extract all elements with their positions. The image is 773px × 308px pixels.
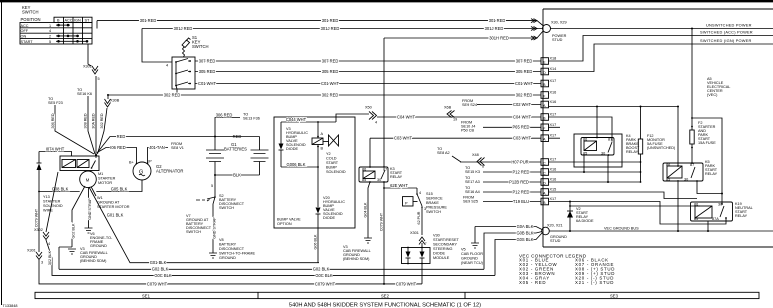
- svg-text:B+: B+: [129, 161, 135, 165]
- svg-text:87: 87: [608, 138, 612, 142]
- connector X302: [92, 66, 98, 74]
- svg-text:4: 4: [48, 242, 50, 246]
- svg-text:SE15 K3: SE15 K3: [465, 170, 480, 174]
- svg-text:ST: ST: [85, 19, 91, 23]
- svg-text:305 RED: 305 RED: [322, 69, 339, 74]
- wire C01 WHT rail: [195, 83, 541, 85]
- svg-text:C: C: [543, 162, 546, 166]
- wire G01 BLK diagonal: [89, 187, 319, 263]
- svg-text:X302: X302: [83, 65, 92, 69]
- svg-text:87: 87: [383, 168, 387, 172]
- svg-text:(VEC): (VEC): [707, 93, 718, 97]
- svg-text:X301: X301: [410, 231, 419, 235]
- svg-text:305 RED: 305 RED: [516, 69, 533, 74]
- svg-text:BATTERY: BATTERY: [219, 243, 237, 247]
- svg-text:G0A BLK: G0A BLK: [517, 224, 534, 229]
- G1 batteries top rail: [215, 136, 260, 138]
- svg-text:G01 BLK: G01 BLK: [107, 213, 124, 218]
- wire G08 BLK: [39, 191, 80, 193]
- svg-text:D: D: [543, 71, 546, 75]
- wire G006 BLK: [281, 166, 318, 168]
- svg-text:BLK: BLK: [233, 172, 241, 177]
- Y2 valve symbol: [329, 135, 339, 146]
- svg-text:307 RED: 307 RED: [199, 58, 216, 63]
- svg-text:COLD: COLD: [326, 157, 337, 161]
- VEC pin B X17: [541, 79, 556, 87]
- svg-text:X302: X302: [34, 228, 43, 232]
- Y13 pull-in coil: [62, 160, 76, 168]
- wire to V3 cab firewall ground: [59, 186, 85, 269]
- svg-text:X16: X16: [550, 100, 557, 104]
- svg-text:STUD: STUD: [550, 239, 561, 243]
- svg-text:C079 WHT: C079 WHT: [35, 208, 39, 227]
- VEC pin F2 X17: [541, 123, 556, 131]
- svg-text:30: 30: [601, 152, 605, 156]
- svg-text:G0S BLK: G0S BLK: [516, 237, 533, 242]
- SECTION: leftside: [27, 44, 495, 286]
- svg-text:GROUND AT: GROUND AT: [97, 201, 120, 205]
- svg-text:X15: X15: [550, 188, 557, 192]
- svg-text:6A DIODE: 6A DIODE: [576, 219, 594, 223]
- internal wire row C: [549, 161, 641, 163]
- svg-text:G0C BLK: G0C BLK: [154, 273, 172, 278]
- svg-text:Y13: Y13: [43, 195, 50, 199]
- S1 key switch feed from 301J: [142, 29, 172, 63]
- svg-text:I074 WHT: I074 WHT: [46, 146, 65, 151]
- svg-text:4: 4: [375, 121, 377, 125]
- wire P12G RED: [483, 191, 541, 193]
- connector X50 on C04 WHT: [369, 112, 377, 120]
- svg-text:306 RED: 306 RED: [216, 112, 233, 117]
- connector X301B: [419, 237, 425, 245]
- svg-text:G02 BLK: G02 BLK: [152, 267, 169, 272]
- svg-text:C02 WHT: C02 WHT: [513, 102, 531, 107]
- G2 alternator: [133, 162, 151, 180]
- F2 starter fuse: [691, 28, 693, 30]
- svg-text:302 RED: 302 RED: [516, 92, 533, 97]
- wire 301H RED rail: [384, 37, 537, 39]
- svg-text:DISCONNECT: DISCONNECT: [219, 247, 245, 251]
- wire 306 RED stub: [215, 118, 240, 137]
- svg-text:WIRE: WIRE: [43, 209, 53, 213]
- W1 ground at starter motor: [91, 187, 96, 197]
- connector X48 on H07 PUR: [477, 158, 485, 166]
- VEC outline: [543, 9, 773, 247]
- wire G05 BLK to alternator: [96, 180, 142, 192]
- svg-text:RELAY: RELAY: [705, 172, 718, 176]
- svg-text:7: 7: [425, 242, 427, 246]
- M1 starter motor: [80, 171, 97, 188]
- svg-text:I06 RED: I06 RED: [110, 145, 126, 150]
- F12 monitor fuse riser: [640, 107, 642, 183]
- svg-text:P50 CB: P50 CB: [461, 129, 475, 133]
- svg-text:OFF: OFF: [21, 29, 29, 33]
- svg-text:X16: X16: [550, 91, 557, 95]
- svg-text:SWITCHED (ACC) POWER: SWITCHED (ACC) POWER: [700, 30, 753, 35]
- SECTION: vec: [541, 9, 773, 247]
- svg-text:301H RED: 301H RED: [489, 35, 509, 40]
- svg-text:301J RED: 301J RED: [321, 26, 340, 31]
- svg-text:X17: X17: [550, 197, 557, 201]
- unswitched power wire: [551, 28, 773, 30]
- svg-text:86: 86: [666, 163, 670, 167]
- svg-text:PRESSURE: PRESSURE: [426, 206, 447, 210]
- wire P12 RED: [483, 171, 541, 173]
- row contact lines: [56, 25, 88, 41]
- wire 302 RED drop to solenoid: [107, 94, 109, 96]
- V8 battery disconnect switch ground: [209, 253, 217, 258]
- svg-text:V5: V5: [461, 248, 466, 252]
- VEC pin D2 X16: [541, 178, 556, 186]
- svg-text:SE17 A3: SE17 A3: [465, 180, 480, 184]
- S1 contact B-IGN: [176, 70, 191, 74]
- wire 302 RED rail: [108, 94, 541, 96]
- section bar: [35, 292, 759, 298]
- svg-text:4: 4: [49, 29, 51, 33]
- svg-text:X16: X16: [550, 178, 557, 182]
- svg-text:X17: X17: [550, 113, 557, 117]
- svg-text:RELAY: RELAY: [626, 150, 639, 154]
- internal wire row C2: [549, 171, 641, 173]
- svg-text:C01 WHT: C01 WHT: [515, 81, 533, 86]
- VEC pin A2 X17: [541, 134, 556, 142]
- svg-text:GND STRAP: GND STRAP: [88, 198, 92, 220]
- Y13 contact: [92, 161, 96, 169]
- K5 coil bottom to K19 contact: [697, 181, 722, 194]
- wire key switch to starter: [88, 44, 96, 155]
- K3 start relay risers: [369, 138, 371, 167]
- svg-text:C03 WHT: C03 WHT: [394, 136, 412, 141]
- svg-text:P65 RED: P65 RED: [512, 125, 529, 130]
- svg-text:G006 BLK: G006 BLK: [287, 162, 306, 167]
- svg-text:301 RED: 301 RED: [489, 18, 506, 23]
- svg-text:30A RED: 30A RED: [92, 113, 96, 129]
- svg-text:X30B: X30B: [110, 99, 120, 103]
- svg-text:BATTERIES: BATTERIES: [224, 147, 247, 152]
- svg-text:M: M: [86, 177, 90, 182]
- wire G0S BLK to VEC stud: [495, 233, 542, 275]
- svg-text:SE9 S24: SE9 S24: [462, 103, 477, 107]
- svg-text:30: 30: [718, 203, 722, 207]
- S2 battery disconnect switch: [196, 197, 215, 201]
- K4 contact to row D2: [607, 155, 609, 182]
- svg-text:SE3: SE3: [610, 294, 619, 299]
- K5 through wire to ground bus: [677, 180, 679, 231]
- S1 key symbol: [182, 38, 191, 48]
- battery 1: [214, 137, 216, 151]
- SECTION: keytable: [20, 5, 92, 44]
- K19 neutral start relay: [691, 202, 733, 221]
- VEC pin F X16: [541, 91, 556, 99]
- svg-text:G01 BLK: G01 BLK: [150, 260, 167, 265]
- SECTION: bottom: [35, 254, 759, 308]
- K4 riser from bus: [596, 107, 598, 138]
- internal wire row A3: [549, 192, 698, 199]
- svg-text:X20, X21: X20, X21: [547, 224, 563, 228]
- wire 305 RED rail: [195, 71, 541, 73]
- svg-text:5: 5: [98, 77, 100, 81]
- svg-text:C079 WHT: C079 WHT: [396, 281, 417, 286]
- connector X301: [36, 252, 42, 260]
- svg-text:15A FUSE: 15A FUSE: [698, 141, 716, 145]
- V3 cab firewall ground symbol: [68, 249, 76, 254]
- svg-text:SECONDARY: SECONDARY: [433, 243, 457, 247]
- VEC ground bus: [549, 230, 773, 232]
- switched IGN power wire: [549, 44, 773, 72]
- svg-text:306 RED: 306 RED: [51, 113, 55, 128]
- S2 gnd strap: [212, 211, 214, 253]
- key switch position table: [20, 17, 92, 44]
- VEC pin D X14: [541, 67, 556, 75]
- wire C079 WHT riser: [39, 260, 422, 284]
- svg-text:D: D: [543, 182, 546, 186]
- VEC pin A X16: [541, 100, 556, 108]
- svg-text:3: 3: [41, 261, 43, 265]
- svg-text:SE5 F23: SE5 F23: [48, 101, 63, 105]
- svg-text:Y2: Y2: [326, 152, 331, 156]
- X20 X21 ground stud: [542, 227, 550, 235]
- svg-text:MODULE: MODULE: [433, 256, 450, 260]
- svg-text:301J RED: 301J RED: [174, 26, 193, 31]
- diode module ground leg: [421, 264, 423, 284]
- svg-text:G05 BLK: G05 BLK: [111, 186, 128, 191]
- V30 diode module: [402, 248, 431, 264]
- contact dots: [57, 24, 88, 43]
- svg-text:SE13 F36: SE13 F36: [243, 117, 260, 121]
- S1 internal feed: [176, 62, 177, 95]
- connector X10 on C04 WHT: [447, 111, 455, 118]
- svg-text:(BEHIND SDM): (BEHIND SDM): [343, 257, 370, 261]
- battery cable RED: [97, 137, 215, 154]
- svg-text:302 RED: 302 RED: [100, 113, 104, 128]
- svg-text:GROUND: GROUND: [461, 257, 478, 261]
- svg-text:DIODE: DIODE: [433, 252, 445, 256]
- svg-text:85: 85: [666, 178, 670, 182]
- svg-text:G06 BLK: G06 BLK: [314, 234, 318, 250]
- border frame top: [0, 0, 773, 2]
- svg-text:C079 WHT: C079 WHT: [315, 281, 336, 286]
- svg-text:START/RESET: START/RESET: [433, 238, 459, 242]
- VEC pin B3 X17: [541, 197, 556, 205]
- svg-text:2: 2: [49, 35, 51, 39]
- svg-text:RED: RED: [117, 134, 126, 139]
- svg-text:4: 4: [166, 64, 168, 68]
- svg-text:540H AND 548H SKIDDER SYSTEM F: 540H AND 548H SKIDDER SYSTEM FUNCTIONAL …: [289, 302, 481, 308]
- svg-text:86: 86: [362, 168, 366, 172]
- wire 306 RED to SE5 F23: [55, 105, 94, 154]
- svg-text:G0B BLK: G0B BLK: [516, 230, 533, 235]
- svg-text:BUMP: BUMP: [326, 166, 337, 170]
- svg-text:G0C BLK: G0C BLK: [315, 273, 333, 278]
- svg-text:SOLENOID: SOLENOID: [326, 170, 346, 174]
- wire P12B RED: [483, 181, 541, 183]
- svg-text:87A: 87A: [712, 217, 719, 221]
- svg-text:C04 WHT: C04 WHT: [397, 114, 415, 119]
- K4 park brake boost relay outer: [574, 134, 622, 167]
- svg-text:X30, X29: X30, X29: [551, 21, 567, 25]
- svg-text:ON: ON: [21, 35, 27, 39]
- svg-text:SWITCH: SWITCH: [186, 230, 201, 234]
- svg-text:62E WHT: 62E WHT: [390, 183, 408, 188]
- svg-text:307 RED: 307 RED: [322, 58, 339, 63]
- svg-text:T19 BLU: T19 BLU: [513, 199, 529, 204]
- V2 wire to K19 coil: [570, 205, 700, 207]
- V3B cab firewall ground: [364, 238, 372, 243]
- wire C04 WHT long: [336, 114, 541, 122]
- wire I06 RED to alternator: [98, 148, 137, 164]
- svg-text:X16: X16: [550, 168, 557, 172]
- svg-text:START: START: [21, 40, 34, 44]
- svg-text:SWITCHED (IGN) POWER: SWITCHED (IGN) POWER: [700, 38, 752, 43]
- svg-text:SE2: SE2: [381, 294, 390, 299]
- svg-text:X17: X17: [550, 158, 557, 162]
- svg-text:RELAY: RELAY: [390, 175, 403, 179]
- svg-text:SE16 A4: SE16 A4: [465, 190, 480, 194]
- K5 park start relay: [663, 163, 703, 181]
- wires converging to power stud: [537, 21, 544, 38]
- svg-text:(UNSWITCHED): (UNSWITCHED): [647, 146, 676, 150]
- V5 cab floor ground: [474, 227, 476, 244]
- svg-text:87: 87: [690, 163, 694, 167]
- S15 service brake pressure switch: [403, 197, 414, 206]
- svg-text:X17: X17: [550, 134, 557, 138]
- wire I074 WHT: [39, 152, 72, 157]
- svg-text:85: 85: [694, 217, 698, 221]
- svg-text:X18: X18: [550, 57, 557, 61]
- svg-text:STEERING: STEERING: [433, 247, 452, 251]
- Y13 starter solenoid box: [60, 156, 99, 171]
- wire 301 RED unswitched rail: [97, 20, 537, 22]
- svg-text:302 BLK: 302 BLK: [48, 250, 52, 265]
- battery bottom rail BLK: [215, 174, 260, 176]
- svg-text:C04 WHT: C04 WHT: [513, 114, 531, 119]
- battery 2: [259, 137, 261, 151]
- gnd strap to V6: [88, 188, 90, 228]
- SECTION: middle: [129, 38, 542, 285]
- svg-text:85: 85: [362, 178, 366, 182]
- svg-text:302 RED: 302 RED: [322, 92, 339, 97]
- svg-text:SE8 V1: SE8 V1: [171, 146, 184, 150]
- wire C03 WHT: [370, 137, 541, 139]
- solenoid down wire: [317, 145, 319, 208]
- svg-text:P12B RED: P12B RED: [509, 179, 529, 184]
- node at starter solenoid: [95, 154, 97, 156]
- V2 start relay diode: [569, 202, 571, 232]
- Y13 hold-in coil: [77, 160, 89, 168]
- svg-text:4: 4: [419, 191, 421, 195]
- VEC pin E X18: [541, 57, 556, 65]
- V6 engine-to-frame ground: [85, 228, 93, 233]
- svg-text:C079 WHT: C079 WHT: [380, 212, 384, 231]
- internal wire row B3 / T19: [549, 202, 727, 225]
- svg-text:C03 WHT: C03 WHT: [513, 136, 531, 141]
- svg-text:301J RED: 301J RED: [485, 26, 504, 31]
- diode V4 on I074: [38, 152, 40, 253]
- svg-text:RELAY: RELAY: [735, 214, 748, 218]
- svg-text:X6B: X6B: [444, 106, 452, 110]
- svg-text:BUMP VALVE: BUMP VALVE: [277, 218, 301, 222]
- wire into diode module: [421, 243, 423, 248]
- svg-text:SOLENOID: SOLENOID: [43, 204, 63, 208]
- wire 62E WHT to pressure switch: [383, 187, 385, 189]
- svg-text:DIODE: DIODE: [323, 216, 335, 220]
- wire J01 TAN: [148, 148, 169, 164]
- svg-text:DIODE: DIODE: [286, 147, 298, 151]
- svg-text:19: 19: [453, 118, 457, 122]
- svg-text:P12 RED: P12 RED: [512, 169, 529, 174]
- svg-text:J01 TAN: J01 TAN: [149, 145, 165, 150]
- svg-text:C079 WHT: C079 WHT: [147, 281, 168, 286]
- svg-text:86: 86: [583, 138, 587, 142]
- svg-text:6: 6: [482, 165, 484, 169]
- svg-text:SWITCH: SWITCH: [426, 210, 441, 214]
- svg-text:MOTOR: MOTOR: [98, 181, 112, 185]
- svg-text:STUD: STUD: [552, 38, 563, 42]
- svg-text:H07 PUR: H07 PUR: [511, 159, 528, 164]
- svg-text:STARTER MOTOR: STARTER MOTOR: [97, 205, 130, 209]
- svg-text:T133848: T133848: [3, 304, 18, 308]
- S1 actuator link: [183, 47, 185, 57]
- svg-text:X05 - RED: X05 - RED: [519, 280, 546, 285]
- svg-text:302 RED: 302 RED: [164, 92, 181, 97]
- wire H07 PUR: [460, 161, 541, 163]
- svg-text:SE16 K6: SE16 K6: [77, 92, 92, 96]
- svg-text:85: 85: [583, 152, 587, 156]
- svg-text:W1: W1: [97, 196, 103, 200]
- svg-text:SWITCH-TO-FRAME: SWITCH-TO-FRAME: [219, 252, 255, 256]
- svg-text:C01 WHT: C01 WHT: [321, 81, 339, 86]
- svg-text:C044 WHT: C044 WHT: [286, 117, 307, 122]
- K3 coil ground wire: [368, 182, 370, 238]
- wire to S2: [214, 175, 216, 197]
- svg-text:C: C: [543, 172, 546, 176]
- svg-text:BRAKE: BRAKE: [426, 201, 439, 205]
- wire C02 WHT: [480, 104, 541, 106]
- svg-text:301 RED: 301 RED: [140, 18, 157, 23]
- VEC pin A3 X15: [541, 188, 556, 196]
- svg-text:SE1: SE1: [142, 294, 151, 299]
- wire C044 WHT: [281, 121, 336, 123]
- svg-text:62 PUR: 62 PUR: [417, 211, 421, 224]
- svg-text:307 RED: 307 RED: [516, 58, 533, 63]
- K4 coil to row C2: [583, 155, 585, 172]
- S1 contact B-ST: [176, 82, 191, 86]
- svg-text:X21 - (-) STUD: X21 - (-) STUD: [575, 280, 614, 285]
- svg-text:UNSWITCHED POWER: UNSWITCHED POWER: [706, 23, 752, 28]
- svg-text:G04 BLK: G04 BLK: [364, 202, 368, 218]
- wire 307 RED rail: [195, 60, 541, 62]
- svg-text:GROUND: GROUND: [90, 244, 107, 248]
- svg-text:P12 RED: P12 RED: [512, 189, 529, 194]
- connector chevrons at power stud: [531, 19, 537, 40]
- K5 coil riser: [677, 106, 679, 108]
- wire G0B BLK to VEC stud: [484, 232, 542, 270]
- wire T19 BLU: [483, 201, 541, 203]
- diagonal from Y13 to X302b: [46, 172, 495, 275]
- SECTION: rails: [97, 18, 544, 204]
- VEC internal ACC bus: [549, 106, 679, 108]
- S1 key switch box: [172, 57, 195, 89]
- svg-text:SERVICE: SERVICE: [426, 197, 443, 201]
- V3 hydraulic bump valve solenoid diode: [280, 122, 282, 167]
- K3 start relay: [359, 167, 388, 182]
- Y2 solenoid coil: [312, 138, 323, 145]
- svg-text:CAB FLOOR: CAB FLOOR: [461, 252, 483, 256]
- svg-text:(NEAR TCU): (NEAR TCU): [461, 261, 484, 265]
- svg-text:GND STRAP: GND STRAP: [213, 217, 217, 239]
- svg-text:(BEHIND SDM): (BEHIND SDM): [80, 259, 107, 263]
- svg-text:S15: S15: [426, 192, 433, 196]
